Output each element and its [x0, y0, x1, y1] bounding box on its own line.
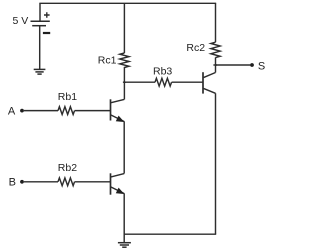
resistor Rc1	[98, 53, 129, 68]
svg-text:Rb1: Rb1	[58, 91, 77, 103]
wire Q2 emitter to ground	[123, 193, 125, 242]
transistor Q2	[111, 173, 125, 194]
wire top rail	[39, 2, 216, 4]
terminal dot S	[250, 63, 254, 67]
transistor Q1	[111, 99, 125, 122]
svg-text:Rb2: Rb2	[58, 162, 77, 174]
ground at bottom	[118, 243, 131, 248]
wire node to S	[216, 64, 251, 66]
node junction Rc1/Rb3	[123, 81, 126, 83]
wire Q3 emitter down	[215, 93, 217, 234]
wire B to Rb2	[24, 181, 58, 183]
node junction Rc2/S	[213, 64, 217, 66]
battery V1 5 V	[13, 12, 51, 69]
resistor Rc2	[186, 42, 220, 58]
svg-text:S: S	[258, 61, 265, 73]
svg-text:B: B	[9, 177, 16, 189]
resistor Rb1	[58, 91, 77, 115]
wire battery to top rail	[39, 3, 41, 21]
wire Q3 collector to Rc2 node	[215, 57, 217, 72]
svg-text:A: A	[8, 106, 16, 118]
wire A to Rb1	[24, 110, 58, 112]
wire top rail to Rc1	[123, 3, 125, 53]
wire Rb3 to Q3 base	[172, 81, 203, 83]
wire node to Rb3	[124, 81, 155, 83]
svg-text:Rc1: Rc1	[98, 54, 117, 66]
wire Rb2 to Q2 base	[75, 181, 111, 183]
svg-text:5 V: 5 V	[13, 15, 29, 27]
ground under battery	[34, 69, 46, 74]
wire bottom rail	[124, 233, 216, 235]
resistor Rb2	[58, 162, 77, 186]
svg-text:Rc2: Rc2	[186, 42, 205, 54]
terminal dot B	[20, 180, 24, 184]
terminal dot A	[20, 109, 24, 113]
wire top rail to Rc2	[215, 3, 217, 42]
wire Rb1 to Q1 base	[75, 110, 111, 112]
wire Q1 emitter to Q2 collector	[123, 121, 125, 173]
resistor Rb3	[153, 65, 172, 86]
wire Rc1 to collector node	[123, 67, 125, 100]
transistor Q3	[203, 72, 216, 93]
svg-text:Rb3: Rb3	[153, 65, 172, 77]
